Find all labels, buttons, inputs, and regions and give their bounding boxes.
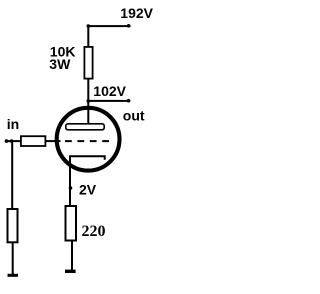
- resistor R2 grid stopper horizontal: [21, 136, 46, 146]
- node junction dot at plate node: [87, 99, 91, 103]
- svg-text:in: in: [7, 116, 19, 132]
- tube V1 plate (anode): [66, 124, 104, 130]
- tube V1 grid dashed line: [65, 140, 109, 142]
- svg-text:102V: 102V: [93, 83, 126, 99]
- svg-text:2V: 2V: [79, 181, 97, 197]
- svg-text:192V: 192V: [120, 5, 153, 21]
- svg-text:out: out: [123, 108, 145, 124]
- node B+ terminal dot: [127, 24, 131, 28]
- node junction dot above R1: [87, 24, 91, 28]
- node output terminal dot: [127, 99, 131, 103]
- wire plate lead down into tube: [87, 101, 89, 125]
- wire output horizontal: [88, 100, 130, 102]
- tube V1 cathode: [70, 156, 105, 206]
- wire grid-leak vertical down: [11, 141, 13, 209]
- node junction dot cathode 2V point: [69, 186, 73, 190]
- svg-text:3W: 3W: [49, 56, 71, 72]
- wire B+ horizontal: [87, 25, 130, 27]
- node input terminal dot: [5, 139, 9, 143]
- resistor R1 10K 3W plate load: [84, 47, 92, 79]
- svg-text:220: 220: [82, 223, 106, 240]
- resistor R3 grid leak vertical: [8, 209, 18, 242]
- wire R4 bottom to ground: [71, 241, 73, 271]
- wire input horizontal to grid: [5, 140, 61, 142]
- ground symbol center: [65, 270, 76, 273]
- node junction dot input/grid-leak: [10, 139, 14, 143]
- tube V1 envelope circle: [57, 108, 120, 171]
- resistor R4 cathode 220 ohm: [66, 206, 77, 241]
- wire R3 bottom to ground: [12, 243, 14, 275]
- wire from B+ junction down to R1: [87, 26, 89, 47]
- wire from R1 bottom down to plate node: [87, 79, 89, 102]
- ground symbol left: [8, 274, 19, 277]
